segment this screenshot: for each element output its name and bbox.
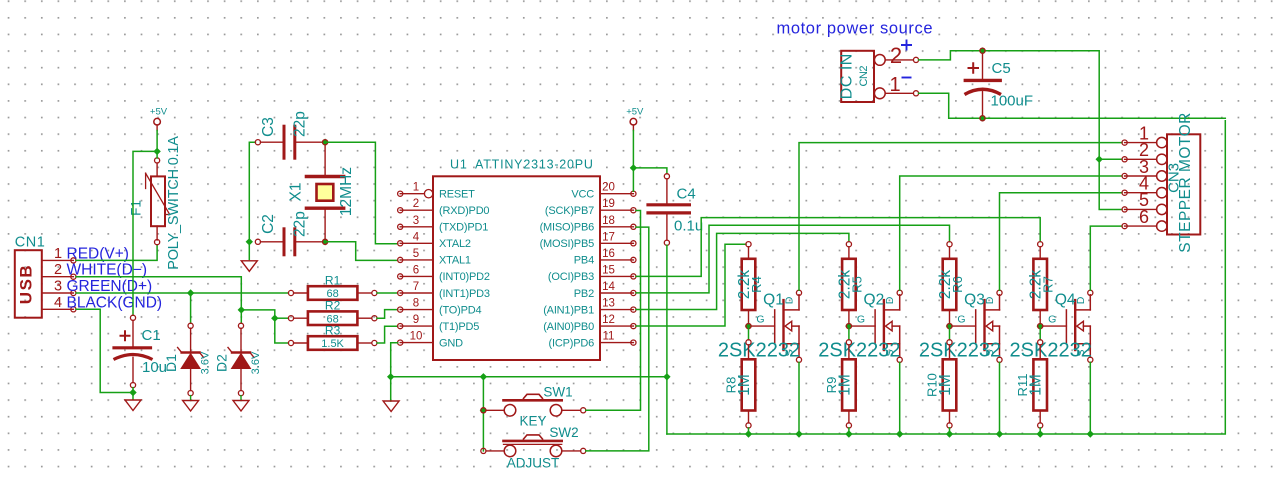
junction R2 branch node bbox=[271, 315, 278, 322]
wire D1 to ground bbox=[190, 396, 192, 401]
zener diode D2 3.6V bbox=[214, 323, 263, 396]
U1 pin 10 bbox=[398, 331, 433, 346]
svg-text:(T1)PD5: (T1)PD5 bbox=[439, 321, 479, 333]
svg-text:U1: U1 bbox=[450, 158, 468, 172]
resistor R10 1M bbox=[925, 340, 957, 428]
svg-text:USB: USB bbox=[17, 264, 36, 304]
junction C4 ground node bbox=[663, 373, 670, 380]
svg-text:1M: 1M bbox=[937, 374, 954, 396]
U1 pin 14 bbox=[600, 281, 636, 296]
svg-text:5: 5 bbox=[413, 248, 419, 260]
svg-text:2: 2 bbox=[413, 198, 419, 210]
svg-text:(INT1)PD3: (INT1)PD3 bbox=[439, 288, 490, 300]
svg-text:1: 1 bbox=[54, 246, 62, 262]
junction C1 ground node bbox=[129, 389, 136, 396]
wire gate to R11 bbox=[1039, 326, 1041, 340]
CN1 pin 3 GREEN(D+) bbox=[42, 279, 76, 296]
wire C3/C2 left to ground bbox=[249, 142, 255, 259]
zener diode D1 3.6V bbox=[163, 323, 212, 396]
svg-text:D: D bbox=[884, 296, 896, 304]
junction source Q2 bus node bbox=[896, 430, 903, 437]
U1 pin 1 bbox=[398, 182, 433, 198]
wire pin12 to R4 bbox=[636, 244, 746, 326]
wire +5V to F1 and C1 bbox=[133, 131, 157, 316]
junction source Q1 bus node bbox=[795, 430, 802, 437]
svg-text:12MHz: 12MHz bbox=[338, 167, 355, 216]
svg-text:C1: C1 bbox=[142, 327, 161, 344]
wire R2 to pin8 bbox=[377, 310, 398, 319]
svg-text:4: 4 bbox=[413, 231, 420, 243]
svg-text:12: 12 bbox=[602, 314, 615, 326]
svg-text:18: 18 bbox=[602, 215, 615, 227]
junction R10 bus node bbox=[946, 430, 953, 437]
svg-text:10: 10 bbox=[410, 331, 423, 343]
svg-text:1: 1 bbox=[889, 74, 900, 96]
connector CN1 (USB) bbox=[15, 234, 46, 317]
junction CN3 pin2 node bbox=[1096, 156, 1103, 163]
svg-text:PB4: PB4 bbox=[574, 255, 594, 267]
svg-text:R3: R3 bbox=[325, 324, 341, 338]
junction gate node Q3 bbox=[946, 322, 953, 329]
resistor R11 1M bbox=[1015, 340, 1047, 428]
svg-text:22p: 22p bbox=[292, 111, 309, 137]
wire gate to R9 bbox=[848, 326, 850, 340]
IC U1 ATTINY2313-20PU bbox=[433, 158, 600, 361]
resistor R8 1M bbox=[724, 340, 756, 428]
junction GREEN/D1 node bbox=[187, 289, 194, 296]
ground (U1) bbox=[383, 401, 399, 412]
svg-text:motor power source: motor power source bbox=[777, 20, 934, 38]
U1 pin 9 bbox=[398, 314, 433, 329]
junction +5V node bbox=[153, 148, 160, 155]
svg-text:ADJUST: ADJUST bbox=[507, 456, 560, 471]
wire source Q2 to ground bus bbox=[899, 362, 901, 434]
transistor Q1 2SK2232 bbox=[718, 290, 802, 362]
resistor R6 2.2k bbox=[937, 242, 965, 324]
junction R8 bus node bbox=[745, 430, 752, 437]
wire R10 to ground bus bbox=[949, 428, 951, 434]
svg-text:R2: R2 bbox=[325, 299, 341, 313]
svg-text:(AIN0)PB0: (AIN0)PB0 bbox=[543, 321, 594, 333]
CN2 pin 1 (-) bbox=[885, 74, 918, 96]
wire CN2 + to C5 and CN3 bbox=[919, 51, 1122, 210]
svg-text:1: 1 bbox=[413, 182, 419, 194]
svg-text:G: G bbox=[1048, 314, 1056, 326]
svg-text:(SCK)PB7: (SCK)PB7 bbox=[545, 205, 594, 217]
svg-text:D: D bbox=[1075, 296, 1087, 304]
wire drain Q2 to CN3 bbox=[900, 176, 1122, 290]
svg-text:RESET: RESET bbox=[439, 189, 475, 201]
svg-text:(TO)PD4: (TO)PD4 bbox=[439, 304, 481, 316]
svg-text:D: D bbox=[784, 296, 796, 304]
junction C5 top node bbox=[979, 47, 986, 54]
power flag +5V (right) bbox=[626, 107, 644, 131]
capacitor C3 22p bbox=[255, 111, 322, 158]
wire R9 to ground bus bbox=[848, 428, 850, 434]
transistor Q2 2SK2232 bbox=[818, 290, 902, 362]
svg-text:1.5K: 1.5K bbox=[321, 338, 344, 350]
junction C2 left node bbox=[246, 238, 253, 245]
wire RED(V+) to F1 bbox=[76, 246, 157, 261]
junction gate node Q1 bbox=[745, 322, 752, 329]
ground (crystal) bbox=[241, 261, 257, 272]
wire SW1 to pin19 bbox=[586, 211, 641, 411]
resistor R7 2.2k bbox=[1028, 242, 1056, 324]
CN3 pin 5 bbox=[1122, 190, 1167, 214]
crystal X1 12MHz bbox=[288, 145, 356, 239]
U1 pin 7 bbox=[398, 281, 433, 296]
switch SW1 KEY bbox=[480, 385, 586, 429]
svg-text:STEPPER MOTOR: STEPPER MOTOR bbox=[1177, 112, 1194, 253]
CN3 pin 6 bbox=[1122, 207, 1167, 231]
wire BLACK(GND) to C1 ground bbox=[76, 309, 130, 392]
wire drain Q1 to CN3 bbox=[799, 143, 1122, 291]
svg-text:(RXD)PD0: (RXD)PD0 bbox=[439, 205, 489, 217]
CN3 pin 4 bbox=[1122, 174, 1167, 198]
junction pin10 ground node bbox=[387, 373, 394, 380]
svg-text:R4: R4 bbox=[749, 276, 764, 293]
junction X1 top node bbox=[321, 139, 328, 146]
svg-text:POLY_SWITCH 0.1A: POLY_SWITCH 0.1A bbox=[166, 136, 182, 270]
svg-text:(OCI)PB3: (OCI)PB3 bbox=[548, 271, 594, 283]
svg-text:C3: C3 bbox=[260, 117, 277, 137]
junction R9 bus node bbox=[845, 430, 852, 437]
net label BLACK(GND) bbox=[67, 294, 163, 311]
svg-text:C2: C2 bbox=[260, 214, 277, 234]
wire pin10 to ground and switch row bbox=[391, 343, 667, 401]
junction R11 bus node bbox=[1037, 430, 1044, 437]
wire WHITE(D-) to D2 bbox=[240, 310, 242, 323]
capacitor C5 100uF bbox=[965, 53, 1034, 117]
ground (D2) bbox=[233, 401, 249, 412]
svg-text:GND: GND bbox=[439, 337, 463, 349]
svg-text:4: 4 bbox=[54, 295, 62, 311]
capacitor C4 0.1u bbox=[648, 174, 703, 246]
junction +5V right node bbox=[630, 164, 637, 171]
U1 pin 5 bbox=[398, 248, 433, 263]
svg-text:17: 17 bbox=[602, 231, 615, 243]
wire XTAL2 (pin4) bbox=[325, 142, 398, 244]
svg-text:SW2: SW2 bbox=[549, 425, 578, 440]
wire switch column bbox=[482, 377, 484, 451]
svg-text:DC IN: DC IN bbox=[839, 53, 856, 99]
wire C4 to ground bus bbox=[666, 245, 668, 434]
CN3 pin 1 bbox=[1122, 123, 1167, 147]
junction gate node Q2 bbox=[845, 322, 852, 329]
connector CN3 STEPPER MOTOR bbox=[1166, 112, 1201, 253]
wire CN3 pin2 branch bbox=[1099, 158, 1122, 160]
svg-text:2SK2232: 2SK2232 bbox=[818, 340, 900, 362]
resistor R2 68 bbox=[288, 299, 377, 326]
junction source Q3 bus node bbox=[996, 430, 1003, 437]
net label RED(V+) bbox=[67, 245, 129, 262]
wire source Q4 to ground bus bbox=[1089, 362, 1091, 434]
svg-text:(MOSI)PB5: (MOSI)PB5 bbox=[540, 238, 595, 250]
wire drain Q3 to CN3 bbox=[1000, 193, 1123, 290]
wire +5V to pin20 and C4 bbox=[633, 131, 667, 192]
svg-text:D1: D1 bbox=[163, 354, 179, 372]
svg-text:3: 3 bbox=[54, 279, 62, 295]
svg-text:1M: 1M bbox=[1028, 374, 1045, 396]
wire pin13 to R5 bbox=[636, 233, 849, 309]
wire GREEN(D+) to D1 bbox=[190, 293, 192, 323]
svg-text:1M: 1M bbox=[836, 374, 853, 396]
svg-text:R7: R7 bbox=[1041, 276, 1056, 293]
U1 pin 18 bbox=[600, 215, 636, 230]
U1 pin 2 bbox=[398, 198, 433, 213]
svg-text:9: 9 bbox=[413, 314, 419, 326]
U1 pin 19 bbox=[600, 198, 636, 213]
svg-text:CN2: CN2 bbox=[858, 66, 870, 87]
wire R3 to pin9 bbox=[377, 326, 398, 343]
wire XTAL1 (pin5) bbox=[325, 242, 398, 261]
svg-text:CN1: CN1 bbox=[15, 234, 46, 250]
U1 pin 20 bbox=[600, 182, 636, 197]
net label GREEN(D+) bbox=[67, 278, 153, 295]
svg-text:8: 8 bbox=[413, 298, 419, 310]
svg-text:Q1: Q1 bbox=[763, 292, 784, 309]
svg-text:G: G bbox=[756, 314, 764, 326]
svg-text:(TXD)PD1: (TXD)PD1 bbox=[439, 222, 488, 234]
wire C1 to ground bbox=[132, 388, 134, 400]
svg-text:XTAL1: XTAL1 bbox=[439, 255, 471, 267]
svg-text:D2: D2 bbox=[214, 354, 230, 372]
capacitor C1 10u (electrolytic) bbox=[114, 315, 168, 388]
wire source Q3 to ground bus bbox=[999, 362, 1001, 434]
svg-text:15: 15 bbox=[602, 264, 615, 276]
svg-text:16: 16 bbox=[602, 248, 615, 260]
ground (D1) bbox=[183, 401, 199, 412]
svg-text:R6: R6 bbox=[950, 276, 965, 293]
capacitor C2 22p bbox=[255, 211, 322, 255]
U1 pin 8 bbox=[398, 298, 433, 313]
wire WHITE(D-) to R2/R3 bbox=[76, 277, 288, 343]
resistor R4 2.2k bbox=[736, 242, 764, 324]
CN2 pin 2 (+) bbox=[885, 40, 918, 69]
U1 pin 3 bbox=[398, 215, 433, 230]
svg-text:D: D bbox=[984, 296, 996, 304]
U1 pin 12 bbox=[600, 314, 636, 329]
power flag +5V (left) bbox=[150, 107, 168, 131]
wire GREEN(D+) to R1 bbox=[76, 292, 288, 294]
junction C5 bottom node bbox=[979, 115, 986, 122]
svg-text:XTAL2: XTAL2 bbox=[439, 238, 471, 250]
connector CN2 DC IN bbox=[839, 51, 886, 102]
wire gate to R10 bbox=[949, 326, 951, 340]
svg-text:F1: F1 bbox=[128, 200, 143, 216]
svg-text:ATTINY2313-20PU: ATTINY2313-20PU bbox=[475, 158, 594, 172]
svg-text:2: 2 bbox=[890, 43, 902, 68]
svg-text:3.6V: 3.6V bbox=[200, 351, 212, 374]
svg-text:X1: X1 bbox=[288, 183, 305, 202]
U1 pin 15 bbox=[600, 264, 636, 279]
svg-text:19: 19 bbox=[602, 198, 615, 210]
svg-text:C4: C4 bbox=[677, 186, 696, 203]
svg-text:(INT0)PD2: (INT0)PD2 bbox=[439, 271, 490, 283]
svg-text:11: 11 bbox=[603, 331, 615, 343]
svg-text:+5V: +5V bbox=[626, 107, 644, 118]
svg-text:13: 13 bbox=[602, 298, 615, 310]
wire R1 to pin7 bbox=[377, 292, 398, 294]
svg-text:3.6V: 3.6V bbox=[250, 351, 262, 374]
svg-text:6: 6 bbox=[1139, 207, 1149, 227]
fuse F1 POLY_SWITCH 0.1A bbox=[128, 136, 182, 270]
junction gate node Q4 bbox=[1037, 322, 1044, 329]
U1 pin 4 bbox=[398, 231, 433, 246]
svg-text:2: 2 bbox=[54, 262, 62, 278]
wire CN2 - to C5 and ground bus bbox=[919, 93, 1226, 118]
svg-text:2SK2232: 2SK2232 bbox=[919, 340, 1001, 362]
wire gate to R8 bbox=[748, 326, 750, 340]
svg-text:Q4: Q4 bbox=[1055, 292, 1076, 309]
transistor Q4 2SK2232 bbox=[1010, 290, 1093, 362]
svg-text:KEY: KEY bbox=[519, 414, 546, 429]
CN3 pin 2 bbox=[1122, 140, 1167, 164]
svg-text:(AIN1)PB1: (AIN1)PB1 bbox=[543, 304, 594, 316]
U1 pin 11 bbox=[600, 331, 636, 346]
svg-text:(ICP)PD6: (ICP)PD6 bbox=[549, 337, 595, 349]
U1 pin 17 bbox=[600, 231, 636, 246]
junction WHITE/D2 node bbox=[238, 306, 245, 313]
wire R8 to ground bus bbox=[748, 428, 750, 434]
junction X1 bottom node bbox=[321, 238, 328, 245]
svg-text:22p: 22p bbox=[292, 211, 309, 237]
svg-text:6: 6 bbox=[413, 264, 419, 276]
svg-text:2SK2232: 2SK2232 bbox=[718, 340, 800, 362]
U1 pin 16 bbox=[600, 248, 636, 263]
resistor R3 1.5K bbox=[288, 324, 377, 351]
wire D2 to ground bbox=[240, 396, 242, 401]
ground (C1) bbox=[125, 400, 141, 411]
CN1 pin 4 BLACK(GND) bbox=[42, 295, 76, 312]
svg-text:R5: R5 bbox=[849, 276, 864, 293]
junction switch column node bbox=[480, 373, 487, 380]
net label WHITE(D−) bbox=[67, 262, 148, 279]
wire R11 to ground bus bbox=[1039, 428, 1041, 434]
resistor R9 1M bbox=[824, 340, 856, 428]
U1 pin 6 bbox=[398, 264, 433, 279]
svg-text:R1: R1 bbox=[325, 274, 341, 288]
svg-text:2SK2232: 2SK2232 bbox=[1010, 340, 1092, 362]
svg-text:14: 14 bbox=[602, 281, 615, 293]
svg-text:7: 7 bbox=[413, 281, 419, 293]
switch SW2 ADJUST bbox=[481, 425, 586, 471]
wire ground bus bbox=[667, 121, 1225, 434]
wire pin14 to R6 bbox=[636, 225, 950, 293]
svg-text:C5: C5 bbox=[992, 60, 1011, 77]
wire source Q1 to ground bus bbox=[798, 362, 800, 434]
CN3 pin 3 bbox=[1122, 157, 1167, 181]
svg-text:G: G bbox=[857, 314, 865, 326]
wire drain Q4 to CN3 bbox=[1090, 226, 1122, 290]
svg-text:(MISO)PB6: (MISO)PB6 bbox=[540, 222, 595, 234]
U1 pin 13 bbox=[600, 298, 636, 313]
CN1 pin 1 RED(V+) bbox=[42, 246, 76, 263]
graphic text motor power source bbox=[777, 20, 934, 38]
transistor Q3 2SK2232 bbox=[919, 290, 1002, 362]
wire pin15 to R7 bbox=[636, 218, 1040, 277]
svg-text:PB2: PB2 bbox=[574, 288, 594, 300]
resistor R1 68 bbox=[288, 274, 377, 301]
wire SW2 to pin18 bbox=[586, 227, 649, 451]
resistor R5 2.2k bbox=[836, 242, 864, 324]
svg-text:20: 20 bbox=[602, 182, 615, 194]
svg-text:G: G bbox=[957, 314, 965, 326]
junction source Q4 bus node bbox=[1087, 430, 1094, 437]
svg-text:0.1u: 0.1u bbox=[674, 218, 703, 235]
svg-text:3: 3 bbox=[413, 215, 419, 227]
svg-text:SW1: SW1 bbox=[543, 385, 572, 400]
svg-text:100uF: 100uF bbox=[991, 93, 1034, 110]
svg-text:1M: 1M bbox=[736, 374, 753, 396]
svg-text:+5V: +5V bbox=[150, 107, 168, 118]
svg-text:Q3: Q3 bbox=[964, 292, 985, 309]
CN1 pin 2 WHITE(D−) bbox=[42, 262, 76, 279]
svg-text:VCC: VCC bbox=[571, 189, 594, 201]
svg-text:Q2: Q2 bbox=[864, 292, 885, 309]
